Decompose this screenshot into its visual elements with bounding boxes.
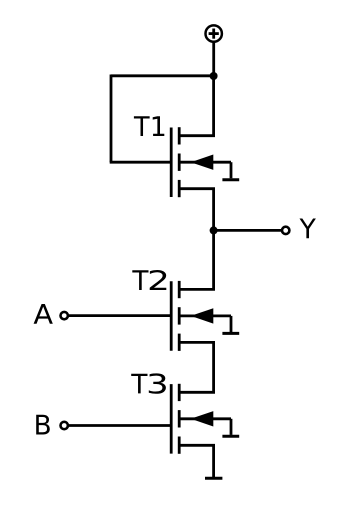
power supply VDD (+) terminal [206, 25, 222, 41]
wire T1 drain to rail [180, 76, 214, 136]
transistor T2 [171, 281, 239, 351]
label B [36, 415, 50, 435]
label A [34, 304, 53, 324]
wire Y output [214, 229, 282, 232]
terminal A open circle [60, 312, 67, 319]
label T3 [131, 373, 166, 393]
node junction dot VDD rail [210, 72, 218, 80]
transistor T3 [171, 384, 239, 454]
wire T2 drain to Y node [180, 230, 214, 289]
wire input A to T2 gate [68, 314, 171, 317]
wire feedback left vertical [110, 75, 113, 163]
label Y [300, 219, 316, 239]
wire T1 gate lead [110, 161, 172, 164]
terminal B open circle [60, 422, 67, 429]
wire top rail horizontal [111, 74, 214, 77]
wire T1 source to Y node [180, 189, 214, 231]
wire input B to T3 gate [68, 424, 171, 427]
transistor T1 [171, 127, 239, 197]
label T1 [134, 116, 164, 136]
label T2 [132, 270, 166, 290]
wire T3 source to ground [180, 445, 214, 477]
terminal Y open circle [282, 227, 289, 234]
wire T2 source to T3 drain [180, 342, 214, 392]
ground [205, 477, 222, 480]
node Y junction dot [210, 226, 218, 234]
wire VDD to junction [212, 42, 215, 76]
